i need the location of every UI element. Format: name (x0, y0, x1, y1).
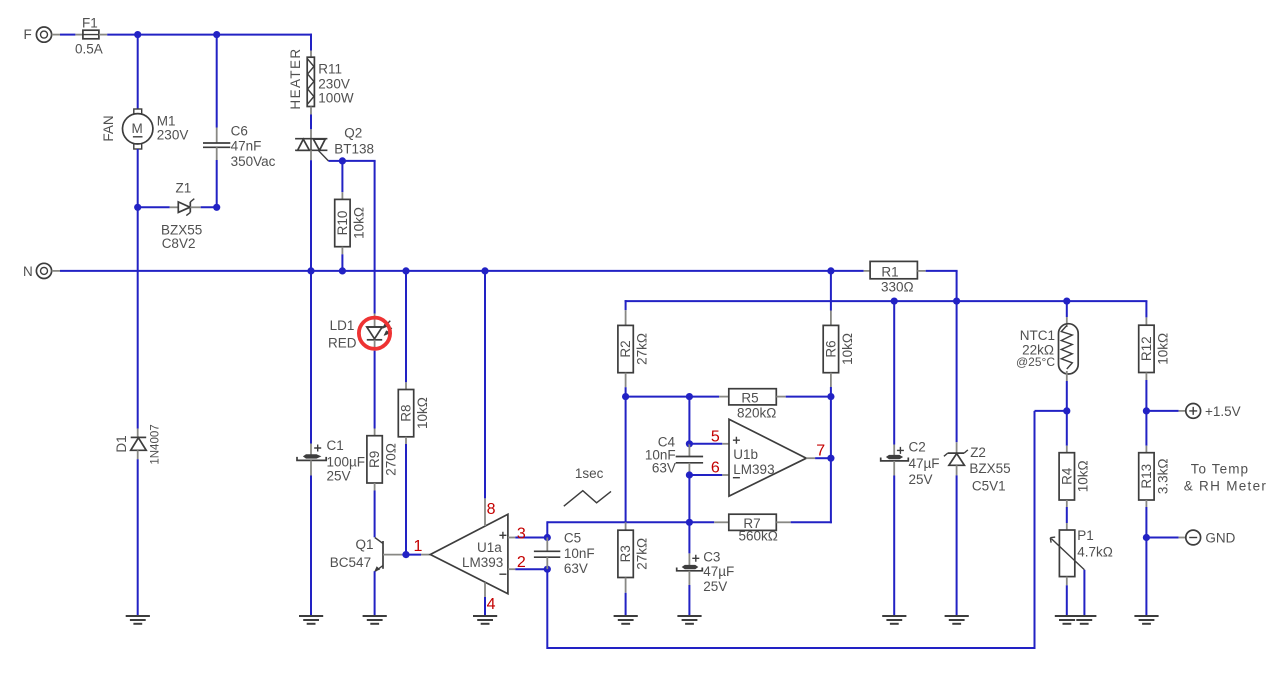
junction Z1 left node (134, 204, 141, 211)
svg-text:47nF: 47nF (231, 139, 262, 154)
resistor R4 (1059, 411, 1091, 507)
svg-text:F1: F1 (82, 16, 98, 31)
wire NTC row stub (1035, 410, 1067, 412)
wire C6 column upper (216, 35, 218, 128)
svg-text:2: 2 (517, 554, 526, 571)
svg-text:7: 7 (816, 442, 825, 459)
svg-text:4.7kΩ: 4.7kΩ (1077, 544, 1113, 559)
wire fan column upper (137, 35, 139, 110)
junction R7 line/C3 (686, 519, 693, 526)
wire U1b pin 5 (689, 443, 729, 445)
svg-text:230V: 230V (157, 128, 189, 143)
resistor R8 (398, 271, 430, 555)
svg-text:100W: 100W (318, 90, 354, 105)
ground (C3) (677, 616, 701, 624)
svg-text:R13: R13 (1139, 464, 1154, 489)
resistor R10 (335, 161, 367, 271)
wire NTC1 to divider node (1066, 381, 1068, 411)
terminal F (24, 27, 52, 42)
wire C1 to ground (310, 476, 312, 616)
wire U1a pin 2 (508, 568, 547, 570)
wire C4 column from R5 line (688, 397, 690, 444)
svg-text:47µF: 47µF (703, 564, 734, 579)
wire R12 to +1.5V node (1145, 380, 1147, 411)
wire C6 to Z1 node (216, 160, 218, 208)
junction F/fan column (134, 31, 141, 38)
svg-text:C6: C6 (231, 124, 248, 139)
resistor R3 (618, 522, 650, 593)
svg-text:25V: 25V (703, 579, 727, 594)
op-amp U1b (729, 419, 806, 496)
svg-text:NTC1: NTC1 (1020, 328, 1055, 343)
op-amp U1a (430, 514, 508, 593)
svg-text:@25°C: @25°C (1016, 355, 1055, 369)
resistor R13 (1139, 411, 1171, 507)
wire +1.5V node to terminal (1146, 410, 1185, 412)
ground (Q1 emitter) (363, 616, 387, 624)
ground (C2) (882, 616, 906, 624)
svg-text:0.5A: 0.5A (75, 42, 103, 57)
wire pin2 node down to bottom rail (546, 569, 548, 649)
svg-text:R8: R8 (399, 404, 414, 421)
svg-text:Q1: Q1 (356, 537, 374, 552)
svg-text:+1.5V: +1.5V (1205, 404, 1241, 419)
wire pin3 node up to R7 line (546, 521, 548, 537)
svg-text:C1: C1 (327, 438, 344, 453)
junction base/R8 (402, 551, 409, 558)
junction V+/NTC1 (1063, 298, 1070, 305)
resistor R6 (823, 271, 855, 387)
wire triac gate to junction (328, 160, 342, 162)
terminal GND (1186, 530, 1236, 545)
junction N/triac column (307, 267, 314, 274)
svg-text:100µF: 100µF (327, 455, 366, 470)
wire R13 column to ground (1145, 538, 1147, 616)
wire U1a pin 8 (484, 271, 486, 526)
svg-text:230V: 230V (318, 76, 350, 91)
wire R7 line left segment (547, 521, 714, 523)
svg-text:5: 5 (711, 428, 720, 445)
LED LD1 (328, 314, 392, 351)
svg-text:R6: R6 (824, 340, 839, 357)
junction pin3/C5 (544, 534, 551, 541)
junction R12/+1.5V node (1143, 407, 1150, 414)
wire V+ rail (625, 300, 1148, 317)
wire R2 to R5 line (625, 387, 627, 396)
wire N rail (52, 270, 864, 272)
diode D1 (114, 424, 162, 464)
svg-text:820kΩ: 820kΩ (737, 406, 776, 421)
wire R4 to P1 (1066, 507, 1068, 523)
svg-text:R4: R4 (1059, 467, 1074, 485)
wire R1 right to Z2 column (926, 271, 958, 301)
svg-text:350Vac: 350Vac (231, 154, 276, 169)
wire Z1 right (190, 206, 216, 208)
wire U1a pin 3 (508, 537, 547, 539)
junction R5 line/R2 (622, 393, 629, 400)
svg-text:FAN: FAN (101, 115, 116, 141)
svg-text:10kΩ: 10kΩ (351, 207, 366, 239)
terminal +1.5V (1186, 404, 1241, 419)
wire R2 column down to R3 (625, 397, 627, 523)
svg-text:R2: R2 (618, 340, 633, 357)
ground (D1) (126, 616, 150, 624)
svg-text:R3: R3 (618, 545, 633, 562)
capacitor C2 (881, 301, 940, 487)
svg-text:LM393: LM393 (733, 462, 774, 477)
svg-text:270Ω: 270Ω (384, 443, 399, 476)
wire fan column to D1 (137, 207, 139, 428)
svg-text:63V: 63V (652, 460, 676, 475)
svg-text:BC547: BC547 (330, 555, 371, 570)
wire R7 right to pin7 column (791, 521, 832, 523)
svg-text:C8V2: C8V2 (162, 236, 196, 251)
junction N/R8 (402, 267, 409, 274)
svg-text:Q2: Q2 (344, 125, 362, 140)
triac Q2 (295, 125, 374, 161)
svg-text:3: 3 (517, 526, 526, 543)
svg-text:10kΩ: 10kΩ (1155, 333, 1170, 365)
svg-text:10kΩ: 10kΩ (415, 397, 430, 429)
junction F/C6 column (213, 31, 220, 38)
svg-text:BT138: BT138 (334, 142, 374, 157)
junction pin7/R6 column (827, 455, 834, 462)
svg-text:M: M (132, 121, 143, 136)
wire R9 to Q1 collector (374, 491, 376, 538)
svg-text:M1: M1 (157, 114, 176, 129)
wire right riser to NTC row (1034, 411, 1036, 649)
wire LD1 to R9 (374, 351, 376, 429)
motor M1 (FAN) (101, 109, 188, 149)
junction R13/GND node (1143, 534, 1150, 541)
wire C4 column down to R7 line (688, 475, 690, 522)
junction N/R6 (827, 267, 834, 274)
svg-text:Z2: Z2 (970, 445, 986, 460)
wire Q1 base to U1a output (402, 554, 430, 556)
svg-text:RED: RED (328, 335, 357, 350)
resistor R1 (864, 261, 926, 294)
svg-text:BZX55: BZX55 (969, 461, 1010, 476)
wire C3 to ground (688, 585, 690, 616)
wire R5 line right (786, 396, 831, 398)
wire F terminal to fuse (52, 34, 83, 36)
wire Z2 to ground (956, 475, 958, 615)
svg-text:P1: P1 (1077, 528, 1094, 543)
wire triac anode down to N (310, 150, 312, 271)
junction Z1 right node (213, 204, 220, 211)
wire U1b pin 6 (689, 474, 729, 476)
red circle annotation around LD1 (359, 318, 390, 349)
zener Z1 (161, 180, 202, 250)
potentiometer P1 (1050, 523, 1113, 585)
wire R6 column pin7 to R7 line (830, 397, 832, 524)
svg-text:25V: 25V (909, 472, 933, 487)
junction V+/Z2 (953, 298, 960, 305)
wire gate junction to LD1 column (342, 161, 375, 314)
svg-text:10nF: 10nF (564, 546, 595, 561)
svg-text:R5: R5 (741, 391, 758, 406)
svg-text:R1: R1 (881, 265, 898, 280)
wire C2 to ground (893, 476, 895, 616)
transistor Q1 (330, 537, 403, 572)
svg-text:8: 8 (487, 501, 496, 518)
resistor R9 (367, 429, 399, 491)
svg-text:27kΩ: 27kΩ (635, 538, 650, 570)
resistor R5 (719, 389, 786, 421)
capacitor C5 (534, 531, 595, 576)
svg-text:HEATER: HEATER (288, 47, 303, 109)
svg-text:C3: C3 (703, 549, 720, 564)
svg-text:C5: C5 (564, 531, 581, 546)
svg-text:27kΩ: 27kΩ (635, 333, 650, 365)
svg-text:GND: GND (1205, 531, 1235, 546)
ground (U1a pin 4) (473, 616, 497, 624)
wire R13 to GND node (1145, 507, 1147, 538)
thermistor NTC1 (1016, 301, 1078, 381)
junction R5 line/R6 (827, 393, 834, 400)
svg-text:D1: D1 (114, 435, 129, 452)
wire Z1 left (138, 206, 179, 208)
svg-text:330Ω: 330Ω (881, 279, 914, 294)
svg-text:560kΩ: 560kΩ (739, 528, 778, 543)
wire U1b pin 7 (806, 457, 831, 459)
svg-text:C5V1: C5V1 (972, 478, 1006, 493)
svg-text:& RH Meter: & RH Meter (1184, 478, 1268, 493)
junction NTC/R4 node (1063, 407, 1070, 414)
svg-text:U1b: U1b (733, 447, 758, 462)
wire R6 to R5 line (830, 387, 832, 397)
resistor R12 (1139, 317, 1171, 380)
junction C4/pin6 (686, 471, 693, 478)
svg-text:4: 4 (487, 596, 496, 613)
wire bottom rail (547, 647, 1035, 649)
ground (Z2) (945, 616, 969, 624)
wire triac column to C1 (310, 271, 312, 444)
wire Q1 emitter to ground (374, 571, 376, 616)
junction V+/C2 (891, 298, 898, 305)
terminal N (23, 263, 52, 279)
svg-text:R9: R9 (367, 451, 382, 468)
svg-text:1: 1 (414, 538, 423, 555)
fuse F1 (75, 16, 103, 57)
svg-text:10kΩ: 10kΩ (1076, 460, 1091, 492)
resistor R7 (714, 514, 791, 543)
svg-text:Z1: Z1 (176, 180, 192, 195)
svg-text:R12: R12 (1139, 336, 1154, 361)
svg-text:1sec: 1sec (575, 466, 604, 481)
svg-text:R11: R11 (318, 61, 342, 76)
wire U1a pin 4 to ground (484, 582, 486, 616)
ground (C1) (299, 616, 323, 624)
sawtooth 1sec annotation (564, 466, 611, 506)
svg-text:10kΩ: 10kΩ (840, 333, 855, 365)
svg-text:U1a: U1a (477, 540, 502, 555)
capacitor C3 (677, 522, 735, 594)
zener Z2 (944, 301, 1011, 493)
junction N/U1a pin8 (481, 267, 488, 274)
wire R11 to triac (310, 115, 312, 139)
wire D1 to ground (137, 459, 139, 616)
wire R5 line left (626, 396, 720, 398)
svg-text:63V: 63V (564, 561, 588, 576)
svg-text:To Temp: To Temp (1191, 461, 1249, 476)
ground (P1 double) (1055, 616, 1097, 624)
junction pin2/C5 (544, 566, 551, 573)
capacitor C4 (645, 434, 703, 475)
resistor R2 (618, 310, 650, 387)
svg-text:47µF: 47µF (909, 456, 940, 471)
wire P1 wiper to ground (1083, 570, 1085, 616)
svg-text:LM393: LM393 (462, 555, 503, 570)
wire fan to Z1 node (137, 149, 139, 208)
junction R5 line/C4 (686, 393, 693, 400)
svg-text:1N4007: 1N4007 (150, 424, 162, 464)
junction triac gate / R10 (339, 157, 346, 164)
svg-text:LD1: LD1 (330, 318, 355, 333)
wire P1 bottom to ground (1066, 585, 1068, 616)
wire F line (fuse to heater corner) (99, 34, 312, 51)
resistor R11 HEATER (288, 47, 354, 114)
svg-text:25V: 25V (327, 468, 351, 483)
junction N/R10 (339, 267, 346, 274)
wire GND node to terminal (1146, 537, 1185, 539)
junction C4/pin5 (686, 440, 693, 447)
ground (R3) (614, 616, 638, 624)
label To Temp & RH Meter (1184, 461, 1268, 493)
capacitor C6 (203, 124, 276, 170)
svg-text:C2: C2 (909, 439, 926, 454)
capacitor C1 (297, 438, 365, 483)
wire R3 to ground (625, 593, 627, 616)
svg-text:F: F (24, 27, 32, 42)
svg-text:R10: R10 (335, 211, 350, 236)
ground (R13) (1134, 616, 1158, 624)
svg-text:N: N (23, 264, 33, 279)
svg-text:6: 6 (711, 460, 720, 477)
svg-text:3.3kΩ: 3.3kΩ (1155, 458, 1170, 494)
